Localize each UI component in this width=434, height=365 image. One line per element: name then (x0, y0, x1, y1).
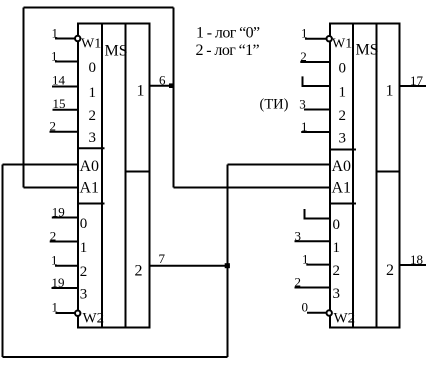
mux DD2 pin W1 bubble (327, 36, 332, 41)
mux DD2 pin W2 bubble (327, 310, 332, 315)
mux DD2 address box bottom divider (330, 203, 356, 205)
svg-text:1: 1 (301, 26, 308, 41)
svg-text:1: 1 (339, 85, 347, 101)
svg-text:1 - лог “0”: 1 - лог “0” (196, 25, 260, 42)
svg-text:W1: W1 (332, 37, 352, 52)
svg-text:1: 1 (89, 85, 97, 101)
net 6 wire to DD1 A1 (24, 187, 80, 189)
svg-text:15: 15 (53, 96, 66, 111)
mux DD1 pin 3 wire, net 2 (50, 131, 80, 133)
svg-text:14: 14 (52, 73, 66, 88)
mux DD1 lower pin 3 wire, net 19 (52, 287, 80, 289)
mux DD1 divider pins/MS (101, 24, 103, 328)
svg-text:3: 3 (89, 130, 97, 146)
svg-text:2 - лог “1”: 2 - лог “1” (196, 42, 260, 59)
mux DD2 lower pin 2 wire, net 1 (306, 264, 330, 266)
mux DD1 pin W2 wire, net 1 (56, 312, 75, 314)
net 7 far-left vertical wire (2, 165, 4, 358)
svg-text:2: 2 (50, 119, 57, 134)
svg-text:1: 1 (302, 252, 309, 267)
svg-text:19: 19 (52, 275, 65, 290)
mux DD2 body outline (330, 24, 400, 328)
svg-text:2: 2 (50, 229, 57, 244)
svg-text:3: 3 (299, 97, 306, 112)
mux DD2 lower pin 3 wire, net 2 (295, 287, 331, 289)
svg-text:7: 7 (159, 251, 166, 266)
mux DD2 output 2 wire, net 18 (400, 264, 427, 266)
mux DD1 output 2 wire, net 7 (150, 265, 228, 267)
svg-text:1: 1 (301, 119, 308, 134)
svg-text:0: 0 (80, 216, 88, 232)
mux DD2 output 1 wire, net 17 (400, 85, 427, 87)
mux DD1 address box top divider (78, 147, 105, 149)
mux DD2 pin W1 wire, net 1 (305, 38, 326, 40)
mux DD1 lower pin 0 wire, net 19 (52, 217, 79, 219)
svg-text:18: 18 (410, 252, 423, 267)
svg-text:A0: A0 (332, 158, 352, 175)
svg-text:1: 1 (137, 83, 145, 100)
net 7 bottom horizontal wire (3, 356, 228, 358)
svg-text:0: 0 (339, 60, 347, 76)
mux DD2 lower pin 1 wire, net 3 (295, 240, 331, 242)
mux DD1 output 1 wire, net 6 (150, 85, 174, 87)
mux DD1 pin 2 wire, net 15 (53, 109, 80, 111)
mux DD1 pin W1 wire, net 1 (55, 38, 75, 40)
mux DD1 output divider (126, 171, 150, 173)
net 7 wire to DD1 A0 (3, 164, 80, 166)
svg-text:2: 2 (80, 264, 88, 280)
mux DD2 divider pins/MS (352, 24, 354, 328)
mux DD1 lower pin 1 wire, net 2 (50, 241, 79, 243)
svg-text:W1: W1 (81, 37, 101, 52)
svg-text:A1: A1 (80, 180, 100, 197)
mux DD1 divider MS/output (125, 24, 127, 328)
svg-text:2: 2 (339, 108, 347, 124)
svg-text:3: 3 (333, 286, 341, 302)
svg-text:17: 17 (410, 73, 424, 88)
svg-text:1: 1 (80, 240, 88, 256)
svg-text:2: 2 (386, 262, 394, 279)
svg-text:2: 2 (295, 275, 302, 290)
mux DD2 pin 1 hook wire (303, 76, 331, 86)
svg-text:0: 0 (333, 217, 341, 233)
mux DD2 pin 0 wire, net 2 (300, 61, 330, 63)
svg-text:0: 0 (302, 300, 309, 315)
mux DD2 address box top divider (330, 149, 356, 151)
svg-text:2: 2 (300, 49, 307, 64)
svg-text:1: 1 (52, 300, 59, 315)
net 6 wire to DD2 A1 (174, 187, 331, 189)
mux DD1 pin 0 wire, net 1 (55, 61, 79, 63)
svg-text:MS: MS (105, 43, 128, 60)
svg-text:1: 1 (51, 49, 58, 64)
mux DD1 body outline (78, 24, 150, 328)
svg-text:0: 0 (89, 60, 97, 76)
svg-text:1: 1 (333, 240, 341, 256)
mux DD2 pin 3 wire, net 1 (301, 131, 330, 133)
net 6 top horizontal wire (24, 7, 174, 9)
mux DD2 output divider (377, 171, 400, 173)
svg-text:19: 19 (52, 204, 65, 219)
mux DD1 pin W1 bubble (75, 36, 80, 41)
svg-text:1: 1 (386, 83, 394, 100)
svg-text:1: 1 (51, 253, 58, 268)
mux DD1 pin 1 wire, net 14 (52, 86, 79, 88)
svg-text:(ТИ): (ТИ) (260, 97, 289, 113)
net 6 middle vertical wire (173, 8, 175, 188)
svg-text:MS: MS (356, 42, 379, 59)
svg-text:A0: A0 (80, 158, 100, 175)
junction net 7 (225, 263, 230, 268)
mux DD1 lower pin 2 wire, net 1 (55, 265, 79, 267)
svg-text:W2: W2 (83, 311, 105, 327)
svg-text:1: 1 (52, 26, 59, 41)
net 7 middle vertical wire (227, 165, 229, 358)
net 6 left vertical wire (23, 8, 25, 188)
mux DD1 pin W2 bubble (75, 311, 80, 316)
net 7 wire to DD2 A0 (228, 164, 331, 166)
svg-text:3: 3 (295, 228, 302, 243)
mux DD1 address box bottom divider (78, 203, 105, 205)
mux DD2 lower pin 0 hook wire (305, 209, 331, 219)
mux DD2 divider MS/output (376, 24, 378, 328)
junction net 6 (169, 83, 174, 88)
svg-text:A1: A1 (332, 180, 352, 197)
mux DD2 pin 2 wire, net 3 (TI) (304, 109, 331, 111)
svg-text:2: 2 (89, 108, 97, 124)
svg-text:6: 6 (159, 73, 166, 88)
svg-text:W2: W2 (334, 311, 356, 327)
mux DD2 pin W2 wire, net 0 (307, 312, 326, 314)
svg-text:2: 2 (333, 263, 341, 279)
svg-text:2: 2 (135, 263, 143, 280)
svg-text:3: 3 (339, 131, 347, 147)
svg-text:3: 3 (80, 287, 88, 303)
